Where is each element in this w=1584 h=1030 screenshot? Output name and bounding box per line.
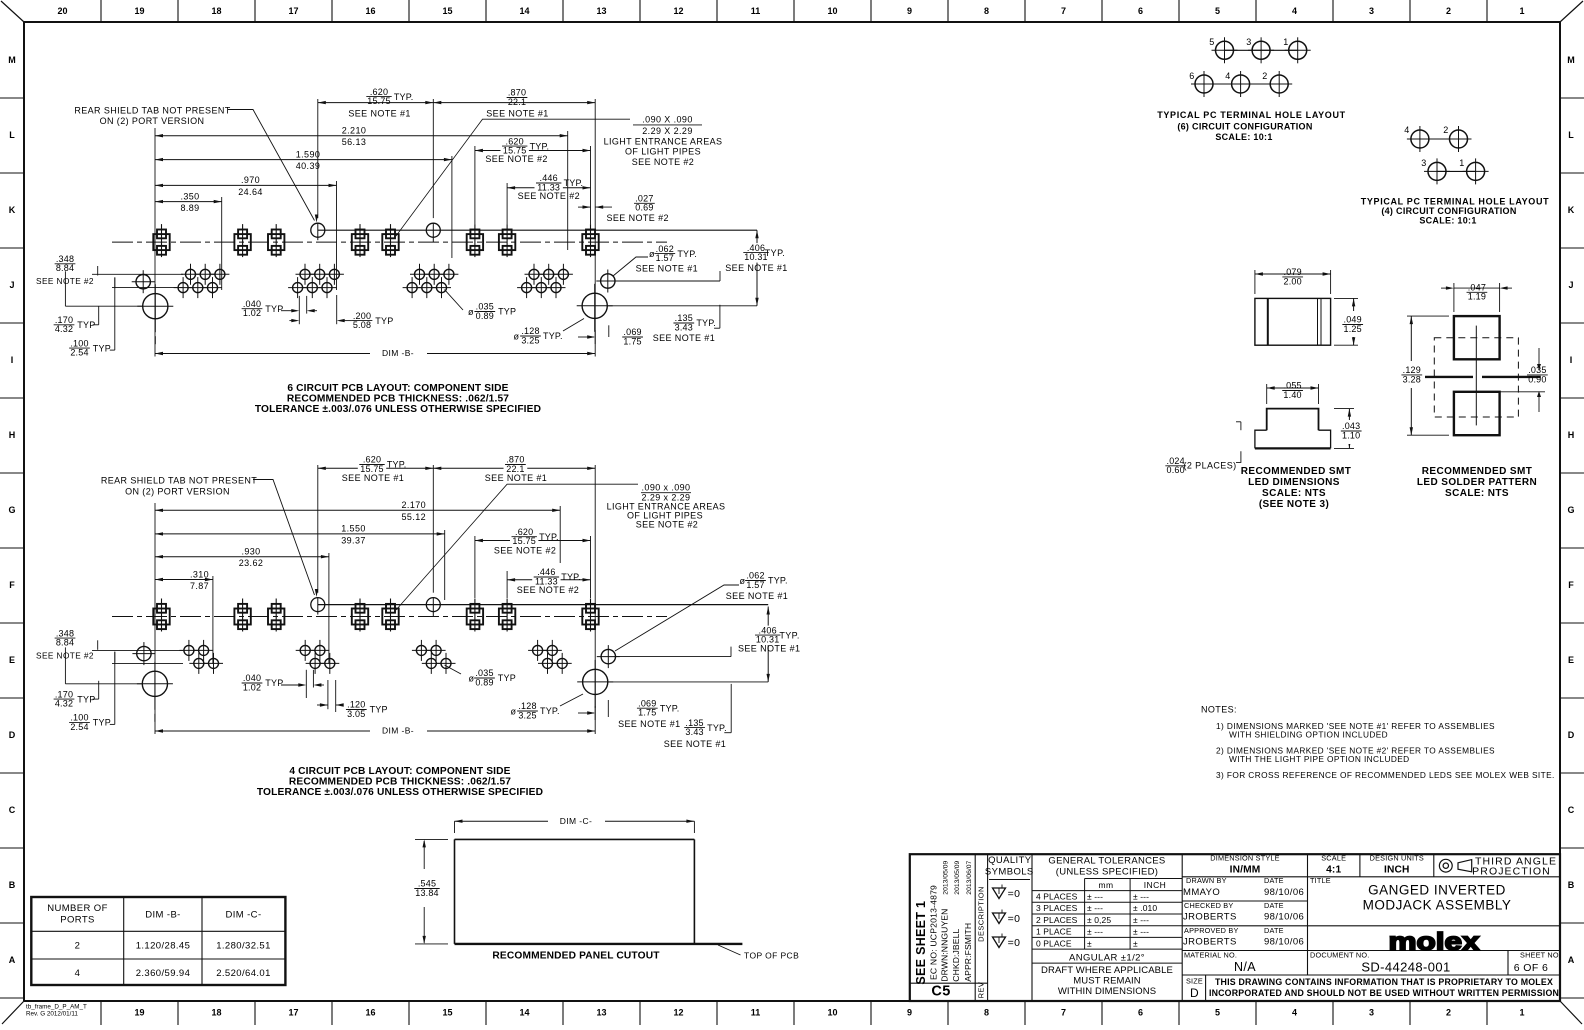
- svg-text:(UNLESS SPECIFIED): (UNLESS SPECIFIED): [1056, 867, 1159, 878]
- svg-text:4:1: 4:1: [1326, 865, 1341, 876]
- svg-text:18: 18: [211, 1008, 221, 1018]
- svg-text:E: E: [9, 655, 15, 665]
- svg-text:INCORPORATED AND SHOULD NOT BE: INCORPORATED AND SHOULD NOT BE USED WITH…: [1209, 988, 1559, 998]
- svg-text:REAR SHIELD TAB NOT PRESENT: REAR SHIELD TAB NOT PRESENT: [74, 105, 230, 115]
- 6ck dim .135 bracket: [719, 305, 721, 328]
- svg-text:SCALE: NTS: SCALE: NTS: [1262, 488, 1326, 499]
- svg-text:F: F: [9, 580, 15, 590]
- svg-text:5.08: 5.08: [353, 320, 371, 330]
- LED pad groups: [179, 640, 198, 661]
- svg-text:K: K: [1568, 205, 1575, 215]
- svg-text:TYP.: TYP.: [696, 318, 716, 328]
- svg-text:TYP.: TYP.: [543, 331, 563, 341]
- svg-text:SEE NOTE #2: SEE NOTE #2: [518, 191, 580, 201]
- svg-text:1.590: 1.590: [296, 149, 321, 159]
- 6ck DIM -B-: [372, 345, 426, 356]
- svg-text:tb_frame_D_P_AM_T: tb_frame_D_P_AM_T: [26, 1004, 87, 1011]
- svg-text:2.360/59.94: 2.360/59.94: [136, 968, 191, 979]
- svg-text:SYMBOLS: SYMBOLS: [985, 867, 1034, 878]
- svg-text:0.90: 0.90: [1528, 374, 1546, 384]
- svg-text:0.69: 0.69: [635, 203, 653, 213]
- svg-text:SCALE: 10:1: SCALE: 10:1: [1419, 216, 1476, 226]
- svg-text:4: 4: [1292, 6, 1297, 16]
- svg-text:G: G: [8, 505, 15, 515]
- panel cutout .545 dim: [423, 841, 425, 869]
- svg-text:3.25: 3.25: [521, 335, 539, 345]
- svg-text:SIZE: SIZE: [1186, 977, 1203, 986]
- svg-text:±: ±: [1133, 938, 1138, 948]
- svg-text:PORTS: PORTS: [60, 915, 95, 926]
- svg-text:REAR SHIELD TAB NOT PRESENT: REAR SHIELD TAB NOT PRESENT: [101, 476, 257, 486]
- 4ck dim .446: [507, 579, 590, 581]
- 6ck dim 2.210: [155, 135, 568, 137]
- svg-text:6: 6: [1138, 1008, 1143, 1018]
- svg-text:ø: ø: [514, 332, 520, 342]
- 6ck extension lines: [154, 128, 156, 357]
- svg-text:DIMENSION STYLE: DIMENSION STYLE: [1210, 854, 1280, 863]
- svg-text:(4) CIRCUIT CONFIGURATION: (4) CIRCUIT CONFIGURATION: [1381, 206, 1516, 216]
- 6ck dim .620 top: [318, 102, 434, 104]
- svg-text:.090 x .090: .090 x .090: [642, 483, 691, 493]
- svg-text:15: 15: [442, 6, 452, 16]
- svg-text:DESIGN UNITS: DESIGN UNITS: [1370, 854, 1424, 863]
- svg-text:TYP.: TYP.: [707, 723, 727, 733]
- svg-text:SEE NOTE #1: SEE NOTE #1: [636, 263, 698, 273]
- svg-text:3: 3: [1421, 158, 1426, 168]
- svg-text:TOLERANCE ±.003/.076 UNLESS OT: TOLERANCE ±.003/.076 UNLESS OTHERWISE SP…: [255, 404, 541, 415]
- svg-text:11: 11: [751, 1008, 761, 1018]
- svg-text:M: M: [8, 55, 16, 65]
- svg-text:TYP: TYP: [93, 343, 111, 353]
- svg-text:13: 13: [596, 1008, 606, 1018]
- svg-text:molex: molex: [1389, 928, 1480, 956]
- svg-text:3.43: 3.43: [685, 727, 703, 737]
- svg-text:24.64: 24.64: [238, 187, 263, 197]
- svg-text:SCALE: NTS: SCALE: NTS: [1445, 488, 1509, 499]
- right big hole: [583, 669, 608, 694]
- svg-text:6: 6: [1138, 6, 1143, 16]
- svg-text:DRAWN BY: DRAWN BY: [1186, 876, 1227, 885]
- svg-text:2.54: 2.54: [70, 347, 88, 357]
- svg-text:7: 7: [1061, 6, 1066, 16]
- 6 circuit layout centerline: [112, 241, 667, 243]
- svg-text:RECOMMENDED PCB THICKNESS: .06: RECOMMENDED PCB THICKNESS: .062/1.57: [287, 394, 509, 405]
- svg-text:98/10/06: 98/10/06: [1264, 937, 1304, 948]
- svg-text:1.02: 1.02: [243, 682, 261, 692]
- svg-text:2: 2: [75, 941, 81, 952]
- svg-text:H: H: [1568, 430, 1575, 440]
- svg-text:SEE NOTE #1: SEE NOTE #1: [653, 333, 715, 343]
- svg-text:18: 18: [211, 6, 221, 16]
- svg-text:SEE NOTE #1: SEE NOTE #1: [725, 263, 787, 273]
- third angle projection symbol: [1439, 859, 1452, 872]
- svg-text:SEE NOTE #2: SEE NOTE #2: [636, 519, 698, 529]
- svg-text:DRWN:NNGUYEN: DRWN:NNGUYEN: [940, 909, 950, 982]
- LED pad groups: [181, 264, 200, 285]
- svg-text:A: A: [1568, 955, 1575, 965]
- svg-text:SEE NOTE #1: SEE NOTE #1: [738, 644, 800, 654]
- svg-text:(6) CIRCUIT CONFIGURATION: (6) CIRCUIT CONFIGURATION: [1177, 122, 1312, 132]
- svg-text:1.19: 1.19: [1468, 292, 1486, 302]
- svg-text:A: A: [9, 955, 16, 965]
- svg-text:3 PLACES: 3 PLACES: [1036, 903, 1078, 913]
- svg-text:5: 5: [1215, 6, 1220, 16]
- 4ck dim .930: [155, 556, 329, 558]
- svg-text:98/10/06: 98/10/06: [1264, 912, 1304, 923]
- svg-text:6 CIRCUIT PCB LAYOUT: COMPONEN: 6 CIRCUIT PCB LAYOUT: COMPONENT SIDE: [287, 383, 508, 394]
- svg-text:14: 14: [519, 6, 529, 16]
- svg-text:B: B: [9, 880, 16, 890]
- terminal hole layout 6 circuit: [1225, 49, 1298, 51]
- svg-text:EC NO: UCP2013-4879: EC NO: UCP2013-4879: [929, 885, 939, 980]
- svg-text:IN/MM: IN/MM: [1230, 865, 1261, 876]
- pads on centerline: [153, 224, 169, 257]
- svg-text:DOCUMENT NO.: DOCUMENT NO.: [1310, 951, 1369, 960]
- svg-text:.350: .350: [180, 191, 199, 201]
- svg-text:J: J: [9, 280, 14, 290]
- svg-text:WITHIN DIMENSIONS: WITHIN DIMENSIONS: [1058, 986, 1156, 997]
- svg-text:DIM -B-: DIM -B-: [145, 910, 181, 921]
- title block outer border: [910, 854, 1560, 1001]
- 6ck dim .970: [155, 184, 337, 186]
- LED dim .049: [1353, 298, 1355, 345]
- svg-text:TYP: TYP: [265, 304, 283, 314]
- svg-text:OF LIGHT PIPES: OF LIGHT PIPES: [625, 147, 701, 157]
- solder dim .035: [1538, 348, 1540, 369]
- svg-text:C: C: [9, 805, 16, 815]
- svg-text:INCH: INCH: [1144, 880, 1166, 890]
- solder pattern top pad: [1454, 316, 1500, 359]
- svg-text:E: E: [1568, 655, 1574, 665]
- 4ck dim 2.170: [155, 509, 560, 511]
- svg-text:± .010: ± .010: [1133, 903, 1157, 913]
- svg-text:TYP.: TYP.: [539, 532, 559, 542]
- svg-text:DESCRIPTION: DESCRIPTION: [977, 886, 986, 942]
- svg-text:4: 4: [75, 968, 81, 979]
- svg-text:12: 12: [673, 1008, 683, 1018]
- svg-text:B: B: [1568, 880, 1575, 890]
- svg-text:19: 19: [134, 6, 144, 16]
- svg-text:5: 5: [1209, 37, 1214, 47]
- svg-text:1: 1: [1519, 6, 1524, 16]
- left big hole: [143, 294, 168, 319]
- svg-text:0.60: 0.60: [1167, 465, 1185, 475]
- right shield hole: [596, 270, 619, 293]
- svg-text:ø: ø: [511, 707, 517, 717]
- svg-text:SEE NOTE #1: SEE NOTE #1: [486, 109, 548, 119]
- svg-text:MMAYO: MMAYO: [1183, 887, 1220, 898]
- svg-text:JROBERTS: JROBERTS: [1183, 937, 1237, 948]
- solder pattern dashed outline: [1434, 338, 1518, 417]
- svg-text:ø: ø: [469, 674, 475, 684]
- svg-text:.090 X .090: .090 X .090: [642, 115, 692, 125]
- svg-text:SEE NOTE #1: SEE NOTE #1: [618, 719, 680, 729]
- title block right rows: [1182, 876, 1560, 878]
- svg-text:=0: =0: [1008, 937, 1021, 949]
- svg-text:DIM -C-: DIM -C-: [225, 910, 261, 921]
- svg-text:J: J: [1568, 280, 1573, 290]
- svg-text:15: 15: [442, 1008, 452, 1018]
- title block left columns: [974, 854, 976, 1001]
- svg-text:23.62: 23.62: [239, 558, 264, 568]
- 4ck dim .870 top: [433, 467, 595, 469]
- svg-text:TYP.: TYP.: [779, 631, 799, 641]
- solder dim .129: [1410, 316, 1412, 435]
- svg-text:3.43: 3.43: [675, 322, 693, 332]
- svg-text:2.29 X 2.29: 2.29 X 2.29: [642, 126, 692, 136]
- light pipe holes: [311, 598, 325, 612]
- svg-text:TYP: TYP: [370, 705, 388, 715]
- svg-text:2.00: 2.00: [1284, 276, 1302, 286]
- 6ck light pipe leader: [396, 119, 630, 236]
- svg-text:SCALE: 10:1: SCALE: 10:1: [1215, 132, 1272, 142]
- svg-text:1: 1: [1519, 1008, 1524, 1018]
- svg-text:TYP.: TYP.: [660, 703, 680, 713]
- svg-text:(2 PLACES): (2 PLACES): [1183, 461, 1236, 471]
- 4ck dim .406: [767, 607, 769, 682]
- svg-text:LED SOLDER PATTERN: LED SOLDER PATTERN: [1417, 477, 1537, 488]
- 4ck extension lines: [154, 503, 156, 734]
- svg-text:JROBERTS: JROBERTS: [1183, 912, 1237, 923]
- left horizontal reference lines: [92, 273, 183, 275]
- svg-text:2.54: 2.54: [70, 722, 88, 732]
- svg-text:SEE SHEET 1: SEE SHEET 1: [914, 901, 928, 985]
- svg-text:22.1: 22.1: [508, 97, 526, 107]
- panel cutout DIM -C- dim: [455, 820, 695, 822]
- svg-text:TYP.: TYP.: [530, 141, 550, 151]
- svg-text:RECOMMENDED SMT: RECOMMENDED SMT: [1241, 466, 1351, 477]
- svg-text:2: 2: [1446, 6, 1451, 16]
- svg-text:2013/06/07: 2013/06/07: [966, 860, 973, 894]
- svg-text:4: 4: [1225, 71, 1230, 81]
- svg-text:SEE NOTE #2: SEE NOTE #2: [632, 157, 694, 167]
- svg-text:1.10: 1.10: [1342, 430, 1360, 440]
- svg-text:K: K: [9, 205, 16, 215]
- svg-text:± ---: ± ---: [1133, 915, 1149, 925]
- svg-text:D: D: [9, 730, 16, 740]
- svg-text:D: D: [1568, 730, 1575, 740]
- svg-text:CHKD:JBELL: CHKD:JBELL: [951, 929, 961, 982]
- LED top view rect: [1255, 298, 1331, 345]
- ports table: [31, 897, 285, 985]
- svg-text:L: L: [9, 130, 15, 140]
- sheet border frame: [24, 21, 1560, 23]
- svg-text:SEE NOTE #1: SEE NOTE #1: [664, 739, 726, 749]
- svg-text:1 PLACE: 1 PLACE: [1036, 927, 1072, 937]
- svg-text:2: 2: [1262, 71, 1267, 81]
- left big hole: [142, 671, 167, 696]
- svg-text:7.87: 7.87: [190, 581, 209, 591]
- solder pattern center lines: [1425, 376, 1474, 378]
- svg-text:2: 2: [1443, 125, 1448, 135]
- svg-text:.310: .310: [190, 569, 209, 579]
- svg-text:G: G: [1567, 505, 1574, 515]
- svg-text:F: F: [1568, 580, 1574, 590]
- svg-text:TOP OF PCB: TOP OF PCB: [744, 951, 799, 961]
- svg-text:TYP: TYP: [265, 678, 283, 688]
- svg-text:TYP: TYP: [93, 718, 111, 728]
- svg-text:TYPICAL PC TERMINAL HOLE LAYOU: TYPICAL PC TERMINAL HOLE LAYOUT: [1157, 110, 1346, 120]
- svg-text:13: 13: [596, 6, 606, 16]
- svg-text:SEE NOTE #2: SEE NOTE #2: [606, 213, 668, 223]
- svg-text:8: 8: [984, 1008, 989, 1018]
- svg-text:TYPICAL PC TERMINAL HOLE LAYOU: TYPICAL PC TERMINAL HOLE LAYOUT: [1361, 197, 1550, 207]
- svg-text:19: 19: [134, 1008, 144, 1018]
- svg-text:55.12: 55.12: [402, 512, 427, 522]
- svg-text:SEE NOTE #1: SEE NOTE #1: [485, 473, 547, 483]
- 6ck dim .870 top: [433, 102, 595, 104]
- svg-text:16: 16: [365, 1008, 375, 1018]
- svg-text:C5: C5: [931, 984, 950, 1000]
- svg-text:SEE NOTE #2: SEE NOTE #2: [494, 545, 556, 555]
- svg-text:6 OF 6: 6 OF 6: [1514, 962, 1549, 974]
- solder dim .047: [1454, 287, 1500, 289]
- svg-text:ø: ø: [649, 249, 655, 259]
- svg-text:ANGULAR ±1/2°: ANGULAR ±1/2°: [1069, 953, 1145, 964]
- svg-text:SEE NOTE #2: SEE NOTE #2: [517, 585, 579, 595]
- svg-text:10: 10: [827, 1008, 837, 1018]
- 4 circuit layout centerline: [112, 616, 667, 618]
- svg-text:1.120/28.45: 1.120/28.45: [136, 941, 191, 952]
- svg-text:20: 20: [57, 6, 67, 16]
- grid row ticks left/right: [0, 97, 24, 99]
- svg-text:3) FOR CROSS REFERENCE OF RECO: 3) FOR CROSS REFERENCE OF RECOMMENDED LE…: [1216, 770, 1555, 780]
- svg-text:SD-44248-001: SD-44248-001: [1361, 960, 1450, 975]
- 6ck dim .446: [507, 187, 590, 189]
- svg-text:TYP.: TYP.: [768, 576, 788, 586]
- svg-text:2 PLACES: 2 PLACES: [1036, 915, 1078, 925]
- svg-text:± ---: ± ---: [1087, 892, 1103, 902]
- svg-text:1.57: 1.57: [656, 253, 674, 263]
- svg-text:1.57: 1.57: [746, 580, 764, 590]
- 4ck dim .135 bracket: [730, 684, 732, 733]
- svg-text:TYP: TYP: [375, 316, 393, 326]
- svg-text:MUST REMAIN: MUST REMAIN: [1073, 976, 1140, 987]
- svg-text:QUALITY: QUALITY: [988, 855, 1032, 866]
- svg-text:40.39: 40.39: [296, 161, 321, 171]
- svg-text:11: 11: [751, 6, 761, 16]
- svg-text:39.37: 39.37: [341, 535, 366, 545]
- svg-text:± ---: ± ---: [1087, 927, 1103, 937]
- 6ck dim 1.590: [155, 159, 452, 161]
- svg-text:LED DIMENSIONS: LED DIMENSIONS: [1248, 477, 1340, 488]
- svg-text:1.550: 1.550: [341, 524, 366, 534]
- svg-text:56.13: 56.13: [342, 137, 367, 147]
- svg-text:.930: .930: [241, 547, 260, 557]
- svg-text:MODJACK ASSEMBLY: MODJACK ASSEMBLY: [1363, 898, 1512, 913]
- pads on centerline: [153, 599, 169, 632]
- svg-text:SEE NOTE #2: SEE NOTE #2: [36, 650, 94, 660]
- svg-text:TYP.: TYP.: [677, 249, 697, 259]
- LED dim .043: [1348, 409, 1350, 449]
- terminal hole layout 4 circuit: [1420, 138, 1459, 140]
- svg-text:3.25: 3.25: [518, 710, 536, 720]
- svg-text:WITH THE LIGHT PIPE OPTION INC: WITH THE LIGHT PIPE OPTION INCLUDED: [1229, 754, 1410, 764]
- svg-text:NUMBER OF: NUMBER OF: [47, 903, 108, 914]
- 4ck dim .120: [317, 704, 328, 706]
- svg-text:WITH SHIELDING OPTION INCLUDED: WITH SHIELDING OPTION INCLUDED: [1229, 730, 1388, 740]
- svg-text:THIS DRAWING CONTAINS INFORMAT: THIS DRAWING CONTAINS INFORMATION THAT I…: [1215, 977, 1553, 987]
- svg-text:3: 3: [1246, 37, 1251, 47]
- svg-text:14: 14: [519, 1008, 529, 1018]
- svg-text:1.25: 1.25: [1344, 324, 1362, 334]
- svg-text:INCH: INCH: [1384, 865, 1410, 876]
- svg-text:6: 6: [1189, 71, 1194, 81]
- 6ck dim .350: [155, 201, 222, 203]
- left horizontal reference lines: [92, 649, 183, 651]
- 4ck light pipe leader: [396, 484, 638, 610]
- svg-text:1: 1: [1459, 158, 1464, 168]
- svg-text:4 PLACES: 4 PLACES: [1036, 892, 1078, 902]
- svg-text:3.28: 3.28: [1403, 374, 1421, 384]
- svg-text:1.280/32.51: 1.280/32.51: [216, 941, 271, 952]
- svg-text:3: 3: [1369, 1008, 1374, 1018]
- svg-text:3: 3: [1369, 6, 1374, 16]
- 6ck dim .406: [756, 230, 758, 305]
- svg-text:± ---: ± ---: [1087, 903, 1103, 913]
- svg-text:SEE NOTE #1: SEE NOTE #1: [348, 109, 410, 119]
- svg-text:8.84: 8.84: [56, 637, 74, 647]
- right shield hole: [597, 645, 620, 668]
- svg-text:SHEET NO.: SHEET NO.: [1520, 951, 1561, 960]
- shield tab line: [318, 229, 757, 231]
- svg-text:1.02: 1.02: [243, 308, 261, 318]
- svg-text:SEE NOTE #2: SEE NOTE #2: [485, 154, 547, 164]
- right horizontal reference lines: [608, 681, 768, 683]
- svg-text:I: I: [1570, 355, 1573, 365]
- svg-text:CHECKED BY: CHECKED BY: [1184, 901, 1233, 910]
- LED side view T-shape: [1267, 409, 1319, 431]
- svg-text:2.520/64.01: 2.520/64.01: [216, 968, 271, 979]
- svg-text:SEE NOTE #1: SEE NOTE #1: [342, 473, 404, 483]
- 6ck dim .620 note2: [475, 150, 591, 152]
- svg-text:=0: =0: [1008, 913, 1021, 925]
- svg-text:RECOMMENDED SMT: RECOMMENDED SMT: [1422, 466, 1532, 477]
- svg-text:ø: ø: [740, 576, 746, 586]
- grid column ticks top/bottom: [100, 0, 102, 22]
- svg-text:ON (2) PORT VERSION: ON (2) PORT VERSION: [100, 116, 205, 126]
- left shield hole: [132, 270, 155, 293]
- svg-text:2: 2: [1446, 1008, 1451, 1018]
- 4ck DIM -B-: [155, 730, 595, 732]
- svg-text:SEE NOTE #1: SEE NOTE #1: [726, 591, 788, 601]
- svg-text:7: 7: [1061, 1008, 1066, 1018]
- svg-text:TYP.: TYP.: [387, 460, 407, 470]
- svg-text:8: 8: [984, 6, 989, 16]
- left shield hole: [132, 642, 155, 665]
- svg-text:4 CIRCUIT PCB LAYOUT: COMPONEN: 4 CIRCUIT PCB LAYOUT: COMPONENT SIDE: [289, 766, 510, 777]
- svg-text:GANGED INVERTED: GANGED INVERTED: [1368, 883, 1506, 898]
- svg-text:0.89: 0.89: [476, 311, 494, 321]
- svg-text:ON (2) PORT VERSION: ON (2) PORT VERSION: [125, 487, 230, 497]
- 4ck dim .310: [155, 579, 213, 581]
- 6ck dim .200: [289, 320, 296, 322]
- svg-text:DATE: DATE: [1264, 901, 1284, 910]
- svg-text:17: 17: [288, 1008, 298, 1018]
- svg-text:N/A: N/A: [1234, 960, 1256, 974]
- 4ck dim 1.550: [155, 533, 445, 535]
- svg-text:TYP.: TYP.: [561, 572, 581, 582]
- panel cutout rectangle: [455, 838, 695, 840]
- svg-text:SCALE: SCALE: [1321, 854, 1346, 863]
- 4ck dim .620 note2: [475, 540, 591, 542]
- svg-text:1.75: 1.75: [638, 708, 656, 718]
- svg-text:D: D: [1190, 986, 1199, 1000]
- svg-text:H: H: [9, 430, 16, 440]
- svg-text:± 0,25: ± 0,25: [1087, 915, 1111, 925]
- svg-text:1.75: 1.75: [623, 336, 641, 346]
- svg-text:DRAFT WHERE APPLICABLE: DRAFT WHERE APPLICABLE: [1041, 965, 1173, 976]
